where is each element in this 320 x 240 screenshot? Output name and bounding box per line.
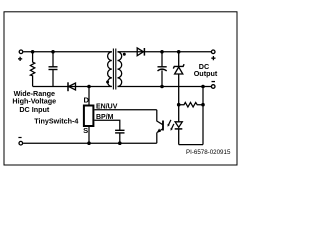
resistor R2 [179,102,203,107]
node C2 top [160,50,164,54]
output + terminal [211,50,215,54]
transformer T1 core [112,49,114,90]
label - (input) [18,137,21,138]
svg-text:PI-6578-020915: PI-6578-020915 [186,149,231,156]
label - (output) [212,81,216,82]
wire: feedback return vertical [202,87,204,145]
wire: BP/M line [94,120,119,130]
wire: EN/UV line [94,109,156,111]
wire: top rail primary [23,51,112,53]
capacitor C1 [49,52,58,87]
wire: source pin [88,126,90,143]
transformer secondary polarity dot [123,53,126,56]
node C2 bottom [160,85,164,89]
node R1 top [31,50,35,54]
transformer primary polarity dot [106,81,109,84]
node S junction [87,141,91,145]
optocoupler U2 LED (outline triangle pointing down) [175,105,183,145]
svg-text:DC Input: DC Input [19,105,50,114]
node R2 left [177,103,181,107]
optocoupler U2 phototransistor [157,110,163,143]
capacitor C3 (BP/M) [115,130,124,143]
node VR1 top [177,50,181,54]
zener VR1 (feedback, cathode bar with bent tips up, outline triangle apex up) [173,52,184,105]
wire: bottom source rail [23,142,157,144]
svg-text:D: D [84,96,90,105]
svg-text:BP/M: BP/M [96,114,114,121]
wire: LED return line [179,144,203,146]
svg-text:TinySwitch-4: TinySwitch-4 [34,117,78,126]
node C1 top [51,50,55,54]
capacitor C2 [158,52,167,87]
svg-text:EN/UV: EN/UV [96,104,118,111]
label + (input) [18,57,22,61]
diode D2 (output rectifier, outline triangle pointing right) [137,48,144,56]
wire: top rail secondary [118,51,212,53]
transformer T1 secondary winding [118,52,122,87]
wire: drain [88,87,90,106]
optocoupler U2 light arrows [168,120,174,131]
input + terminal [19,50,23,54]
transformer T1 primary winding [108,52,112,87]
input - terminal [19,141,23,145]
IC U1 TinySwitch-4 box [84,106,94,127]
label + (output) [211,56,215,60]
output - terminal [211,85,215,89]
node C3 bottom [118,141,122,145]
diode D1 (clamp, cathode bar left, outline triangle pointing left) [68,82,76,91]
node R2 right [201,103,205,107]
resistor R1 [30,52,34,87]
wire: clamp bottom line [33,86,112,88]
wire: bottom rail secondary [118,86,212,88]
svg-text:Output: Output [194,69,218,78]
svg-text:S: S [83,126,88,135]
node drain junction [87,85,91,89]
node feedback return [201,85,205,89]
border frame [4,12,237,165]
